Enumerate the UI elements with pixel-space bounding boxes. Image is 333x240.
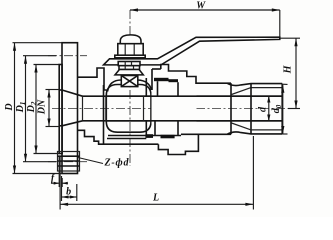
cavity wall left	[103, 85, 105, 144]
svg-text:DN: DN	[37, 99, 48, 115]
dimension d line	[267, 96, 270, 122]
body hub bottom left	[78, 130, 159, 144]
bore line top at flange	[59, 89, 62, 91]
cap nut hex	[118, 44, 143, 56]
bore line top main	[83, 95, 283, 97]
washer under cap	[115, 55, 145, 58]
body top right to end cap	[152, 65, 231, 91]
packing box with X	[121, 76, 138, 87]
stem boss gland flange	[115, 69, 143, 75]
svg-text:Z-фd: Z-фd	[104, 158, 130, 169]
stem gland nut hex	[119, 66, 140, 70]
seal ring black top A	[154, 78, 169, 81]
hex end vertical	[230, 83, 232, 134]
dimension d0 line	[281, 84, 287, 134]
wire: dimension W line	[130, 8, 280, 11]
dimension DN line	[46, 90, 60, 127]
centerline main horizontal	[52, 108, 294, 110]
svg-text:W: W	[196, 1, 206, 12]
dimension D line	[13, 43, 63, 174]
cap sleeve bottom line	[108, 135, 181, 137]
thread relief dip top	[227, 83, 282, 85]
dimension D2 line	[34, 65, 60, 154]
end cap white mask	[152, 77, 197, 139]
handle lever	[104, 37, 280, 65]
cap nut dome	[120, 35, 141, 44]
pipe bottom line	[181, 133, 231, 135]
ball	[106, 85, 151, 133]
centerline stem vertical	[129, 10, 131, 166]
seal ring black bottom B	[161, 135, 175, 139]
svg-text:L: L	[152, 192, 159, 203]
svg-text:D: D	[4, 103, 15, 111]
wire: W right extension line	[279, 10, 281, 40]
end face	[281, 84, 283, 134]
seat holder right	[145, 78, 147, 136]
cap bottom collar	[158, 134, 198, 154]
seat ring left	[105, 96, 107, 121]
bolt hole threaded bottom	[58, 152, 80, 172]
bore line bottom main	[83, 120, 283, 122]
wire: dimension H line	[281, 38, 301, 108]
stem square through handle	[118, 62, 140, 66]
bolt circle dashed top	[48, 55, 87, 57]
svg-text:H: H	[282, 64, 293, 74]
bore through ball bottom	[107, 120, 282, 122]
svg-text:D1: D1	[15, 102, 27, 114]
svg-text:d0: d0	[271, 104, 283, 113]
thread relief dip bottom	[227, 132, 282, 134]
svg-text:d: d	[257, 106, 268, 112]
bonnet bell arc right	[138, 80, 152, 90]
bonnet bell arc left	[108, 80, 122, 92]
flange raised face	[59, 65, 62, 154]
seat ring right	[143, 96, 145, 121]
bolt circle dashed bottom	[48, 161, 87, 163]
dimension D1 line	[23, 56, 56, 162]
bore taper bottom	[62, 121, 83, 126]
bore vertical at taper end	[82, 96, 84, 121]
leader Z-phi-d	[78, 158, 103, 164]
bore line bottom at flange	[59, 125, 62, 127]
dimension f	[51, 156, 68, 187]
flange plate	[62, 43, 78, 174]
seal ring black top B	[169, 79, 179, 82]
body hub top left	[78, 68, 107, 90]
stem sides below cap	[124, 56, 126, 59]
dimension b	[62, 176, 77, 201]
end cap steps	[155, 81, 178, 135]
bore taper top	[62, 90, 83, 96]
dimension L line	[60, 136, 253, 210]
cavity bottom line	[107, 138, 146, 140]
seal ring black bottom A	[145, 134, 153, 138]
svg-text:b: b	[66, 186, 71, 197]
bore through ball top	[107, 95, 282, 97]
